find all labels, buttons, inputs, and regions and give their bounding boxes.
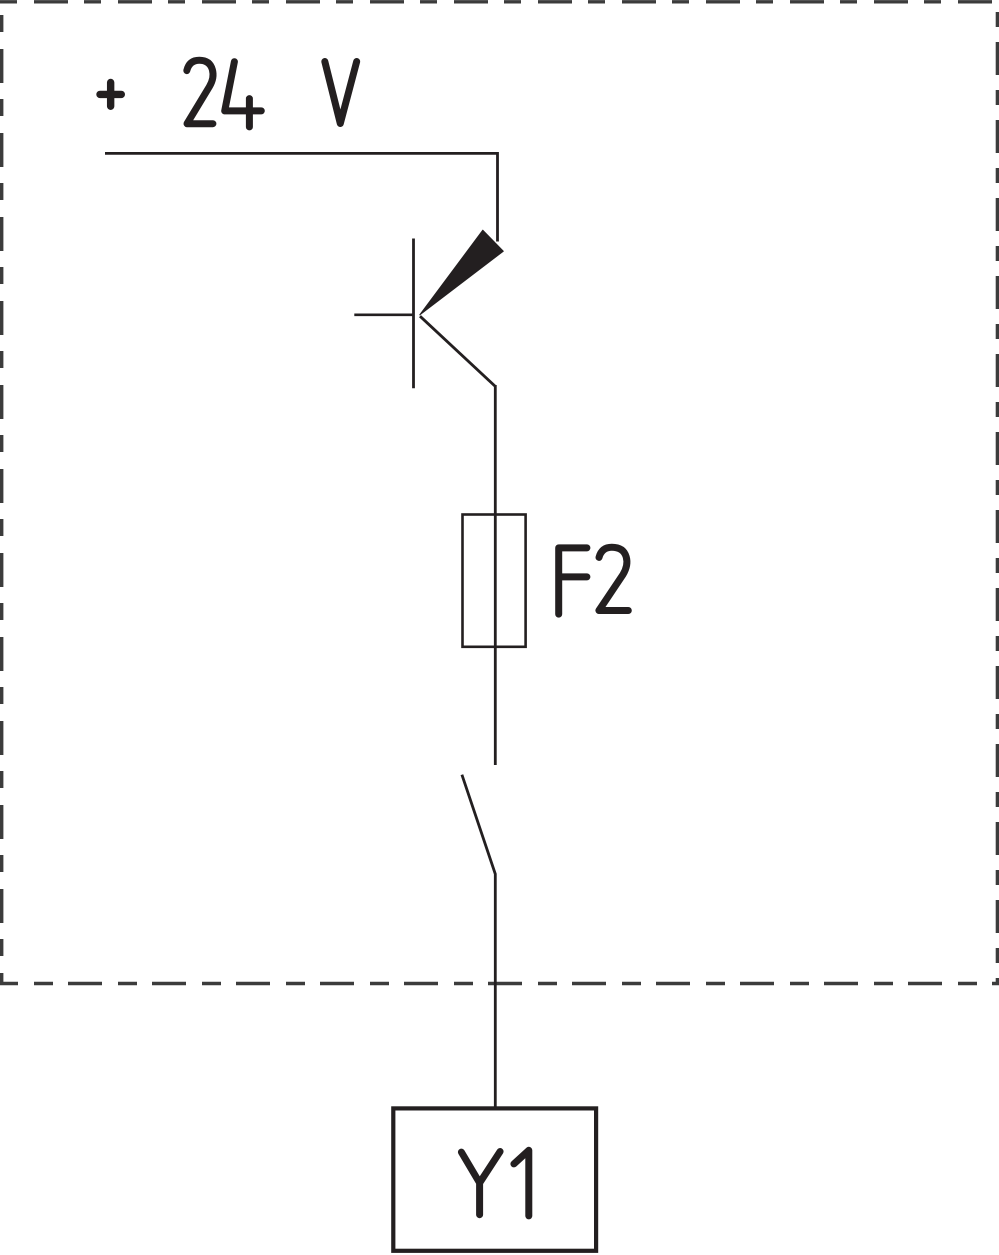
enclosure boundary right (dash-dot) (996, 0, 999, 984)
net label +24V : digit 4 (225, 62, 262, 127)
transistor PNP output: emitter arrow (420, 230, 504, 315)
wire collector down through fuse to switch (494, 385, 497, 765)
fuse label F2 : digit 2 (599, 547, 628, 610)
enclosure boundary bottom (dash-dot) (0, 982, 999, 985)
solenoid coil Y1 box (393, 1108, 596, 1250)
fuse label F2 : letter F (559, 548, 587, 614)
transistor PNP output: base bar (412, 239, 415, 389)
solenoid label Y1 : letter Y (461, 1152, 500, 1215)
net label +24V : digit 2 (187, 60, 213, 123)
solenoid label Y1 : digit 1 (514, 1150, 529, 1216)
enclosure boundary top (dash-dot) (0, 0, 999, 3)
wire +24V rail: horizontal then down to transistor emitter (105, 153, 498, 241)
transistor PNP output: collector lead (420, 316, 495, 386)
switch contact blade and wire down to Y1 (462, 775, 495, 1107)
net label +24V : plus sign (100, 83, 121, 107)
transistor PNP output: base lead (354, 313, 413, 316)
net label +24V : letter V (325, 62, 357, 124)
fuse F2 body (463, 515, 526, 647)
enclosure boundary left (dash-dot) (0, 0, 3, 984)
